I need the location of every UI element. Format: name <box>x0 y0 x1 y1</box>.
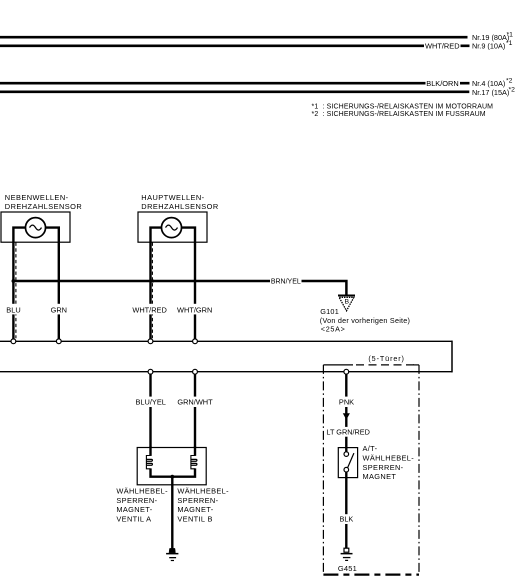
junction shield / BRN/YEL <box>151 279 154 282</box>
shield drain (dashed) along WHT/RED wire <box>151 243 153 339</box>
terminal GRN pin <box>56 339 61 344</box>
label BLU/YEL <box>134 397 168 407</box>
terminal GRN/WHT pin <box>193 369 198 374</box>
5-door variant box bottom edge <box>323 573 419 575</box>
label shift lock solenoid valve A <box>116 487 168 524</box>
wire BRN/YEL to ground <box>13 281 346 295</box>
svg-text:Nr.4 (10A): Nr.4 (10A) <box>472 79 505 88</box>
wire out of solenoid switch <box>345 472 347 478</box>
solenoid switch top terminal <box>344 452 349 457</box>
svg-text:WHT/RED: WHT/RED <box>425 41 460 50</box>
svg-text:WÄHLHEBEL-: WÄHLHEBEL- <box>363 454 415 463</box>
svg-text:BRN/YEL: BRN/YEL <box>271 278 301 285</box>
ground G101 symbol <box>338 295 355 311</box>
svg-text:*1 : SICHERUNGS-/RELAISKASTEN: *1 : SICHERUNGS-/RELAISKASTEN IM MOTORRA… <box>312 104 494 111</box>
svg-text:NEBENWELLEN-: NEBENWELLEN- <box>5 193 69 202</box>
wire WHT/RED from mainshaft sensor <box>151 228 163 340</box>
label WHT/RED <box>424 41 461 51</box>
5-door variant box top edge <box>323 364 419 366</box>
label mainshaft speed sensor <box>141 193 218 211</box>
svg-text:*2: *2 <box>509 86 516 93</box>
ground symbol below solenoid box <box>166 548 178 561</box>
svg-text:WÄHLHEBEL-: WÄHLHEBEL- <box>177 487 229 496</box>
terminal WHT/GRN pin <box>193 339 198 344</box>
terminal BLU pin <box>11 339 16 344</box>
TCM module right edge <box>451 341 453 373</box>
svg-text:BLU: BLU <box>6 305 20 314</box>
svg-text:Nr.19 (80A): Nr.19 (80A) <box>472 33 509 42</box>
svg-text:G101: G101 <box>320 307 339 316</box>
ground G451 symbol <box>341 548 353 561</box>
svg-text:Nr.9 (10A): Nr.9 (10A) <box>472 42 505 51</box>
svg-text:SPERREN-: SPERREN- <box>177 496 218 505</box>
wire GRN from countershaft sensor <box>45 228 59 340</box>
junction of coil returns <box>170 475 174 479</box>
svg-text:G451: G451 <box>338 564 357 573</box>
wire BLU from countershaft sensor <box>13 228 26 340</box>
label PNK <box>338 397 355 407</box>
wire into solenoid switch <box>345 448 347 452</box>
wire PNK / LT GRN/RED <box>345 372 347 448</box>
svg-text:WÄHLHEBEL-: WÄHLHEBEL- <box>116 487 168 496</box>
TCM module bottom rail <box>0 371 452 373</box>
svg-text:VENTIL B: VENTIL B <box>177 515 212 524</box>
wire BLK <box>345 478 347 549</box>
svg-text:*1: *1 <box>506 40 513 47</box>
svg-text:B: B <box>345 299 350 306</box>
svg-text:SPERREN-: SPERREN- <box>116 496 157 505</box>
svg-text:*2 : SICHERUNGS-/RELAISKASTEN: *2 : SICHERUNGS-/RELAISKASTEN IM FUSSRAU… <box>312 111 486 118</box>
svg-text:*1: *1 <box>507 32 514 39</box>
svg-text:GRN: GRN <box>51 305 67 314</box>
wire GRN/WHT <box>194 372 196 448</box>
svg-text:<25A>: <25A> <box>321 324 346 333</box>
mainshaft sensor AC generator symbol <box>162 218 182 238</box>
svg-text:WHT/GRN: WHT/GRN <box>177 305 212 314</box>
svg-text:MAGNET-: MAGNET- <box>116 505 152 514</box>
label GRN/WHT <box>177 397 213 407</box>
wire BLU/YEL <box>149 372 151 448</box>
solenoid coil A <box>146 447 172 477</box>
svg-text:*2: *2 <box>506 78 513 85</box>
wire WHT/RED feed line to fuse Nr.19 <box>0 36 468 39</box>
svg-text:DREHZAHLSENSOR: DREHZAHLSENSOR <box>5 202 82 211</box>
label Nr.19 (80A) *1 <box>472 32 513 42</box>
terminal WHT/RED pin <box>148 339 153 344</box>
label Nr.9 (10A) *1 <box>472 40 513 51</box>
svg-text:PNK: PNK <box>339 397 354 406</box>
label Nr.17 (15A) *2 <box>472 86 515 97</box>
svg-text:(5-Türer): (5-Türer) <box>368 354 404 363</box>
svg-text:VENTIL A: VENTIL A <box>116 515 151 524</box>
svg-text:MAGNET: MAGNET <box>363 472 397 481</box>
svg-text:GRN/WHT: GRN/WHT <box>177 397 213 406</box>
svg-text:LT GRN/RED: LT GRN/RED <box>326 427 370 436</box>
5-door variant box left edge <box>322 365 324 575</box>
countershaft speed sensor box <box>1 212 70 242</box>
shift lock solenoid valve box <box>137 448 206 485</box>
label countershaft speed sensor <box>5 193 82 211</box>
label GRN <box>51 304 67 315</box>
solenoid coil B <box>172 447 197 477</box>
svg-text:DREHZAHLSENSOR: DREHZAHLSENSOR <box>141 202 218 211</box>
wire to ground from solenoid box <box>171 477 173 549</box>
label A/T shift lock solenoid <box>363 444 415 481</box>
label shift lock solenoid valve B <box>177 487 229 524</box>
5-door variant box right edge <box>418 365 420 575</box>
terminal PNK pin <box>344 369 349 374</box>
shield drain (dashed) along BLU wire <box>15 243 17 339</box>
svg-text:Nr.17 (15A): Nr.17 (15A) <box>472 88 509 97</box>
junction BLU / BRN/YEL <box>12 279 16 283</box>
label WHT/RED <box>132 304 167 315</box>
svg-text:WHT/RED: WHT/RED <box>132 305 167 314</box>
label BRN/YEL <box>270 276 302 285</box>
terminal BLU/YEL pin <box>148 369 153 374</box>
svg-text:A/T-: A/T- <box>363 444 378 453</box>
A/T shift lock solenoid box <box>338 448 357 478</box>
solenoid switch bottom terminal <box>344 467 349 472</box>
TCM module top rail <box>0 340 452 342</box>
svg-text:HAUPTWELLEN-: HAUPTWELLEN- <box>141 193 204 202</box>
label BLU <box>6 304 21 315</box>
svg-text:BLK/ORN: BLK/ORN <box>426 79 458 88</box>
wire WHT/GRN from mainshaft sensor <box>181 228 195 340</box>
solenoid switch lever <box>348 453 354 468</box>
wire BLK/ORN feed line to fuse Nr.4 <box>0 82 470 85</box>
label LT GRN/RED <box>326 427 370 437</box>
label BLK <box>338 514 356 524</box>
svg-text:BLU/YEL: BLU/YEL <box>135 397 165 406</box>
arrow on PNK wire <box>343 413 350 420</box>
label Nr.4 (10A) *2 <box>472 78 513 89</box>
label BLK/ORN <box>426 78 461 88</box>
countershaft sensor AC generator symbol <box>26 218 46 238</box>
svg-text:SPERREN-: SPERREN- <box>363 463 404 472</box>
svg-text:MAGNET-: MAGNET- <box>177 505 213 514</box>
svg-text:BLK: BLK <box>340 515 354 524</box>
wire BLK/ORN feed line to fuse Nr.17 <box>0 91 469 94</box>
label WHT/GRN <box>177 304 212 315</box>
mainshaft speed sensor box <box>138 212 207 242</box>
wire WHT/RED feed line to fuse Nr.9 <box>0 44 470 47</box>
